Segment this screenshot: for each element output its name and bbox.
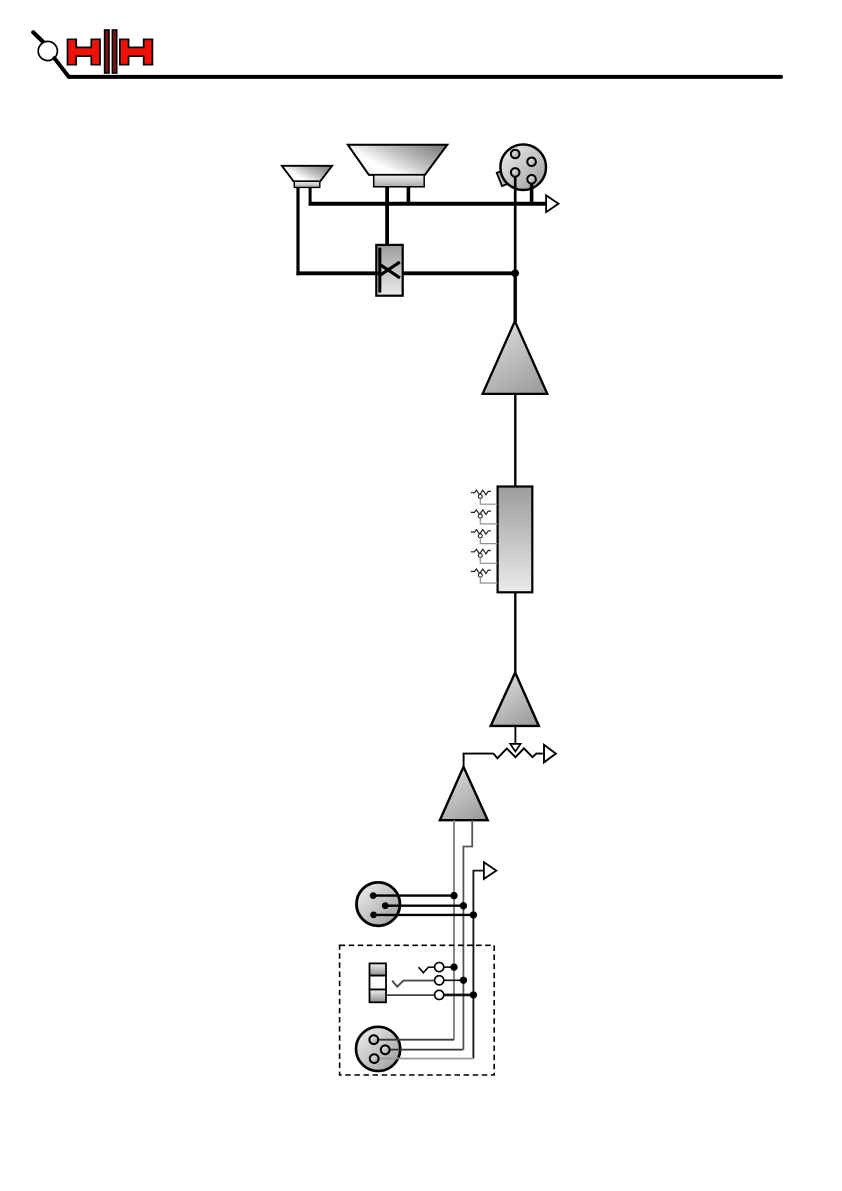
wire EQ block to driver amp [514, 592, 516, 673]
connector XLR1 input socket body [357, 882, 400, 925]
logo divider bar 1 [105, 30, 109, 73]
potentiometer VR1 EQ band 1 [471, 490, 498, 504]
potentiometer VR5 EQ band 5 [471, 569, 498, 583]
connector XLR2 pin 1 [369, 1035, 378, 1044]
wire speakon pin4 lead down to speaker bus [530, 179, 534, 205]
wire LS2 left lead (to crossover input) [385, 186, 389, 246]
connector SK1 speakon locking tab [497, 171, 507, 186]
logo underline rule [54, 58, 781, 77]
connector SK1 pin 4 [527, 175, 536, 184]
wire XLR2 pin3 corner to link line [374, 1058, 473, 1060]
crossover X1 symbol vertical bar [378, 248, 381, 293]
node junction bottom contact [470, 991, 477, 998]
wire top contact to grey line [444, 966, 454, 968]
crossover X1 body [376, 245, 402, 296]
wire node A to power amp input [514, 273, 517, 322]
connector XLR2 pin 2 [381, 1045, 390, 1054]
connector XLR1 pin 2 [382, 902, 389, 909]
loudspeaker LS2 woofer magnet [374, 175, 425, 187]
logo divider bar 2 [112, 30, 116, 73]
wire middle contact to middle line [444, 979, 464, 981]
connector XLR2 link socket body [356, 1027, 400, 1071]
connector SK1 pin 3 [511, 168, 520, 177]
op-amp A1 power amplifier [483, 321, 548, 394]
wire LS2 right lead (to speaker bus) [407, 186, 411, 206]
wire bottom contact to link line [444, 994, 474, 997]
connector XLR1 pin 3 [370, 912, 377, 919]
node junction pin2 wire [460, 902, 467, 909]
terminal arrow link output [484, 862, 496, 879]
loudspeaker LS1 horn tweeter magnet [294, 181, 320, 187]
connector SK1 pin 2 [527, 158, 536, 167]
wire driver amp to volume wiper [514, 726, 516, 744]
wire LS1 positive lead (left, to crossover line) [296, 186, 299, 275]
wire crossover output line [296, 271, 515, 275]
wire input amp non-inverting lead with jog [463, 820, 472, 1049]
crossover X1 input stub [377, 271, 381, 275]
terminal arrow speaker bus output [546, 195, 558, 212]
crossover X1 symbol diagonal up [380, 262, 400, 275]
wire jack sleeve to bottom contact [386, 994, 434, 996]
wire XLR1 pin3 to link line [374, 914, 474, 916]
switch S2 lever (middle normalling contact) [392, 981, 434, 987]
EQ block U1 body [498, 487, 533, 593]
wire speaker bus [309, 202, 546, 206]
logo letter H (left) [68, 39, 100, 64]
loudspeaker LS2 woofer cone [348, 145, 448, 175]
wire input amp inverting lead (grey) [453, 820, 455, 1039]
terminal arrow line output [544, 745, 556, 763]
node junction middle contact [460, 977, 467, 984]
wire XLR1 pin1 to grey line [373, 894, 454, 896]
wire XLR1 pin2 to middle line [385, 905, 463, 907]
jack J1 insulator segment [370, 976, 387, 990]
wire LS1 negative lead (right, to speaker bus) [309, 186, 312, 206]
connector XLR2 pin 3 [370, 1054, 379, 1063]
contact circle middle [435, 976, 444, 985]
node A junction dot [511, 269, 519, 277]
node junction top contact [450, 963, 457, 970]
wire speakon pin3 lead down to node A [514, 172, 517, 273]
logo lead-in stroke top-left [33, 32, 44, 43]
wire XLR2 pin1 corner to grey line [374, 1039, 454, 1041]
connector SK1 pin 1 [511, 150, 520, 159]
op-amp A2 driver amplifier [491, 673, 539, 726]
node junction pin1 wire [450, 892, 457, 899]
crossover X1 symbol diagonal down [380, 265, 400, 278]
logo circle [38, 41, 57, 60]
op-amp A3 input amplifier [440, 767, 488, 820]
connector XLR1 pin 1 [370, 892, 377, 899]
jack J1 sleeve contact segment [370, 990, 387, 1003]
potentiometer VR2 EQ band 2 [471, 510, 498, 524]
potentiometer VR6 volume wiper arrow [510, 744, 520, 752]
potentiometer VR3 EQ band 3 [471, 530, 498, 544]
contact circle bottom [435, 990, 444, 999]
switch S1 lever (top normalling contact) [419, 967, 435, 973]
contact circle top [435, 963, 444, 972]
potentiometer VR6 volume track resistor [494, 748, 543, 758]
wire XLR2 pin2 corner to middle line [385, 1049, 463, 1051]
connector SK1 speaker output socket body [500, 144, 546, 190]
wire volume pot left lead to input amp [464, 754, 494, 768]
node junction pin3 wire [470, 911, 477, 918]
logo letter H (right) [120, 39, 153, 64]
jack J1 tip contact segment [370, 963, 387, 975]
wire link output riser [473, 871, 484, 1059]
potentiometer VR4 EQ band 4 [471, 549, 498, 563]
dashed enclosure input panel [340, 945, 495, 1075]
loudspeaker LS1 horn tweeter cone [282, 166, 332, 182]
wire power amp to EQ block [514, 394, 516, 487]
